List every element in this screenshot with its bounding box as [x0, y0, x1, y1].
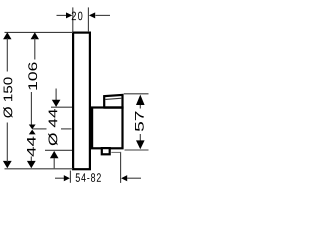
foot bottom extension stub [111, 151, 120, 153]
dimension 20: text [72, 12, 83, 21]
dimension Ø44: top shaft [55, 89, 57, 101]
dimension 57: top arrow [136, 95, 145, 105]
dimension 20: left arrow [66, 12, 72, 18]
dimension Ø44: bottom shaft [53, 158, 55, 168]
dimension 54-82: right tail [127, 177, 141, 179]
dimension 54-82: right extension line [120, 152, 122, 183]
dimension Ø106: line lower segment [30, 92, 32, 125]
dimension Ø44: top arrow [52, 100, 61, 107]
dimension 54-82: left tail [55, 177, 65, 179]
dimension Ø150: text [3, 77, 12, 117]
dimension Ø106: top arrow [31, 32, 39, 39]
dimension 44 (plate lower): top arrow (bowtie bottom) [29, 130, 36, 135]
dimension Ø106: text [28, 62, 37, 89]
dimension 54-82: right arrow [121, 175, 127, 181]
dimension Ø150: line upper segment [6, 38, 8, 72]
dimension Ø44: top extension line [51, 106, 72, 108]
dimension 57: bottom extension line [125, 149, 149, 151]
dimension 57: top extension line [124, 93, 149, 95]
dimension 54-82: left extension line [69, 171, 71, 183]
dimension 44: bottom arrow [27, 161, 36, 168]
dimension 54-82: text [76, 173, 101, 182]
escutcheon plate outline [73, 33, 90, 170]
dimension 57: line upper segment [139, 105, 141, 109]
dimension 20: right arrow [89, 12, 95, 18]
dimension Ø150: bottom extension line [5, 168, 74, 170]
handle foot [102, 148, 110, 154]
dimension Ø150: bottom arrow [3, 161, 12, 168]
dimension Ø44: bottom arrow [50, 151, 59, 158]
dimension Ø106: extension stub right [61, 128, 72, 130]
dimension Ø150: top extension line [5, 31, 74, 33]
dimension 20: right tail [95, 14, 110, 16]
handle body outline [92, 108, 122, 149]
handle grip inner line [105, 98, 122, 99]
dimension 20: left tail [57, 14, 67, 16]
handle grip (top step) [104, 95, 122, 108]
dimension Ø106: line upper segment [34, 38, 36, 60]
dimension 44: line lower segment [30, 157, 32, 162]
dimension Ø150: line lower segment [6, 123, 8, 162]
handle body top edge restored [104, 106, 122, 108]
dimension 57: text [135, 111, 144, 131]
dimension Ø44: text [48, 109, 57, 145]
dimension 20: left extension line [72, 7, 74, 32]
dimension 57: line lower segment [139, 134, 141, 141]
dimension 20: right extension line [87, 7, 89, 32]
dimension Ø106: extension stub left [33, 128, 47, 130]
dimension 44: text [27, 137, 36, 157]
dimension Ø44: bottom extension line [45, 149, 72, 151]
dimension Ø106: bottom arrow (bowtie top) [29, 125, 36, 130]
dimension 57: bottom arrow [136, 140, 145, 149]
dimension Ø150: top arrow [3, 32, 11, 39]
dimension 54-82: left arrow [64, 175, 70, 181]
